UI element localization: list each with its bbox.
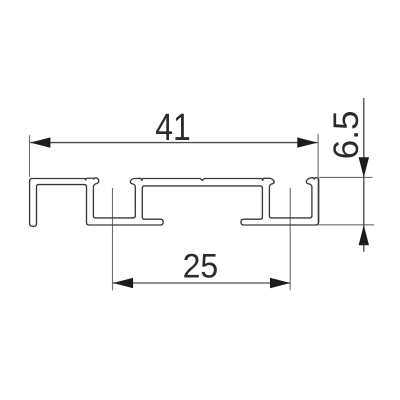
arrowhead 6.5 bottom — [359, 225, 369, 245]
dimension line 41 — [30, 142, 317, 144]
arrowhead 41 left — [30, 137, 50, 147]
extension line left of 41 — [29, 135, 31, 177]
extension line bottom of 6.5 — [317, 224, 374, 226]
dimension line 6.5 — [363, 98, 365, 252]
extension line right of 25 — [289, 188, 291, 291]
arrowhead 25 left — [113, 278, 133, 288]
extension line right of 41 — [317, 134, 319, 223]
arrowhead 6.5 top — [359, 157, 369, 177]
svg-text:41: 41 — [155, 107, 191, 149]
extension line top of 6.5 — [319, 176, 372, 178]
dimension 41 — [30, 134, 319, 223]
arrowhead 25 right — [270, 278, 290, 288]
dimension 25 — [113, 188, 291, 291]
svg-text:6.5: 6.5 — [327, 111, 366, 160]
dimension 6.5 — [317, 98, 374, 252]
svg-text:25: 25 — [183, 248, 219, 286]
arrowhead 41 right — [297, 137, 317, 147]
profile cross-section outline — [30, 178, 319, 227]
extension line left of 25 — [112, 188, 114, 291]
dimension line 25 — [113, 282, 290, 284]
